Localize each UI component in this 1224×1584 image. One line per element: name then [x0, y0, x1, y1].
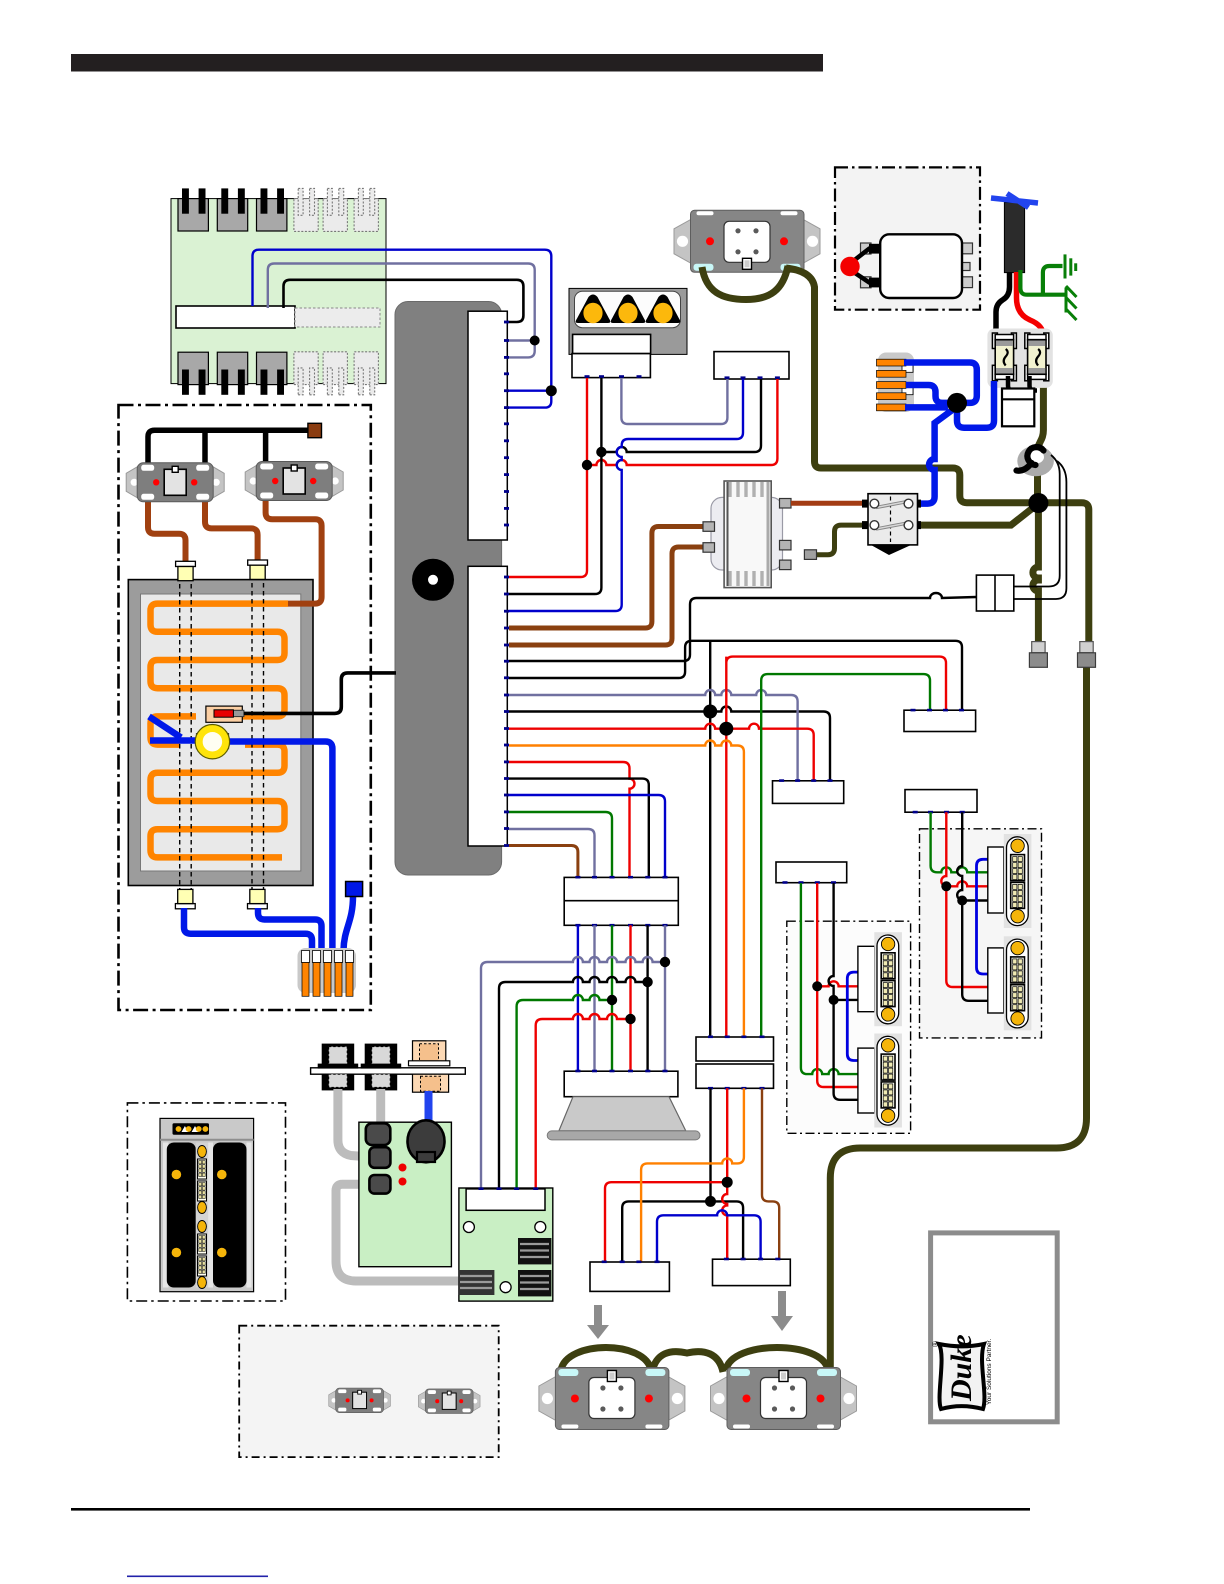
display module A1 [874, 932, 902, 1026]
control panel bezel [160, 1118, 254, 1291]
display dash box A [787, 921, 911, 1133]
rocker switch S1 [862, 494, 921, 555]
thermostat spare dash box [239, 1326, 499, 1457]
junction slate [530, 336, 540, 346]
wire brown below stacked boxes [762, 1088, 779, 1259]
arrow right [771, 1291, 793, 1331]
wire thin black jumper 2 [1014, 461, 1066, 599]
wire blue stack to speaker [577, 925, 579, 1071]
wire green cord to grounds [1020, 270, 1066, 295]
connector 2box [976, 575, 1013, 611]
controller connector CN1 [468, 311, 507, 540]
fuse F2 [1025, 333, 1049, 381]
connector J6 (unused) [354, 188, 378, 231]
power cord [1004, 203, 1024, 273]
wire black vertical feed to stacked boxes [709, 641, 711, 1037]
thermostat TS2 [245, 462, 343, 501]
bottom receptacle right [711, 1368, 857, 1430]
wire orange controller to stacked boxes [509, 741, 744, 1038]
strain relief clamp [1017, 446, 1054, 477]
connector J1 [178, 188, 208, 231]
connector J8 [217, 352, 247, 395]
fuse F1 [992, 333, 1016, 381]
title bar (redacted) [71, 54, 823, 72]
wire blue module B link [977, 859, 988, 974]
module A1 connector [858, 946, 875, 1011]
wire olive bottom receptacle loops [561, 1348, 828, 1373]
connector J5 (unused) [323, 188, 347, 231]
lamp label box [573, 334, 651, 353]
tank body [128, 580, 313, 886]
thermostat bulb [199, 728, 226, 755]
cord break mark blue [991, 194, 1038, 208]
junction blue [546, 385, 557, 396]
junction black [596, 447, 606, 457]
bottom receptacle left [539, 1368, 685, 1430]
PCB2 heatsink right bottom [518, 1270, 551, 1296]
heater terminal T3 [175, 889, 195, 908]
terminal blue square [346, 882, 363, 897]
fuse holder box [1002, 389, 1034, 427]
wire green stack to speaker [611, 925, 613, 1071]
CN1 pin dashes [504, 321, 509, 527]
wire black box3 to modules A [829, 883, 858, 1100]
PCB2 holes [463, 1222, 474, 1233]
wire slate controller to stack pin2 [509, 829, 595, 877]
lamp L3 [646, 295, 681, 324]
PCB label strip 2 (ghost) [295, 308, 380, 327]
Duke logo box [931, 1233, 1058, 1422]
Duke logo [931, 1334, 984, 1409]
wire green box2 to module B1 [931, 812, 988, 872]
wire green box1 to stacked boxes (net G2) [761, 674, 930, 1037]
footer link line [127, 1576, 268, 1578]
wire olive switch to junction diagonal [921, 507, 1034, 525]
stack connector box [564, 877, 678, 925]
connector J12 (unused) [354, 352, 378, 395]
CN2 pin dashes [504, 576, 509, 847]
control panel dash box [127, 1103, 285, 1301]
wire brown tstat1L to terminal T1 [148, 500, 186, 562]
display module A2 [874, 1034, 902, 1128]
junction red [582, 460, 592, 470]
lamp L2 [611, 295, 646, 324]
wire black controller pin to conn4 (net B3) [509, 707, 830, 781]
relay PCB board [171, 199, 386, 384]
controller body [395, 302, 502, 876]
wire red horizontal to right lamp connector [587, 379, 777, 465]
PCB2 heatsink right top [518, 1238, 551, 1264]
wire black horizontal to right lamp connector [601, 379, 761, 452]
wire red box2 to modules B [941, 812, 988, 987]
PCB1 conn1 [366, 1123, 391, 1145]
wire blue bus to switch [921, 408, 955, 504]
lamp L1 [576, 295, 611, 324]
connector box1 [904, 710, 976, 731]
fuse holder peach [409, 1041, 450, 1092]
connector J4 (unused) [294, 188, 318, 231]
wire black lamp pin2 / controller [509, 378, 601, 594]
display module B2 [1004, 936, 1032, 1030]
speaker horn [559, 1097, 686, 1131]
PCB1 red dots [399, 1164, 407, 1172]
bulb blocks [197, 734, 211, 749]
wire blue stub from square [344, 896, 354, 950]
connector left bottom box [590, 1262, 669, 1291]
wire olive junction to cord grip 2 and big loop to right receptacle [830, 503, 1089, 1368]
wire gray conn3 loop to PCB2 [336, 1184, 462, 1281]
wire brown controller to stack pin1 [509, 846, 578, 878]
connector J11 (unused) [323, 352, 347, 395]
wire gray cap1 to conn2 [338, 1089, 372, 1157]
wire black box2 to modules B [957, 812, 988, 1001]
wire red below stacked boxes [605, 1088, 727, 1262]
wire blue capillary left [149, 717, 196, 741]
element dashed legs [180, 567, 264, 903]
wire red controller to box1 and conn pin3 (net RA) [509, 657, 946, 1037]
PCB2 board [459, 1188, 553, 1301]
capacitor C2 [361, 1044, 402, 1091]
wire blue fuse to PCB1 [425, 1091, 433, 1135]
wire orange below stacked boxes [641, 1088, 744, 1262]
wire blue bus B [906, 385, 952, 403]
wire green controller to stack pin3 [509, 812, 612, 877]
wire black controller pin to 2box connector (net B1) [509, 593, 976, 661]
wire gray cap2 to conn1 [376, 1089, 385, 1125]
wire red stack to speaker [629, 925, 631, 1071]
EMI filter device [840, 234, 972, 298]
wire blue left box to right box [657, 1210, 761, 1262]
thermal fuse [206, 706, 244, 722]
PCB label strip [176, 306, 295, 328]
spare thermostat A [329, 1388, 391, 1413]
wire red box3 to modules A [817, 883, 858, 1087]
wire black hi-limit jumper [148, 430, 309, 467]
wire blue module A link [847, 972, 858, 1060]
wire thin black jumper 1 [1014, 455, 1060, 587]
connector conn4 [773, 781, 844, 804]
wire red lamp pin1 / controller (net R-C) [509, 378, 587, 577]
terminal brown square [308, 423, 322, 437]
connector J2 [217, 188, 247, 231]
svg-text:Duke: Duke [945, 1334, 978, 1402]
wire brown controller pin4 to transformer [509, 527, 705, 629]
heating element coil [151, 604, 289, 858]
wire brown tstat2L to element [266, 499, 322, 604]
wire blue controller to stack pin6 [509, 795, 665, 877]
wire slate stack to speaker [593, 925, 595, 1071]
bracket bar [311, 1068, 466, 1074]
module A2 connector [858, 1048, 875, 1113]
wire black controller to stack pin5 [509, 779, 649, 877]
wire brown transformer to switch [791, 501, 866, 506]
fuse block base [987, 329, 1052, 388]
stacked boxes pair [696, 1037, 774, 1061]
controller connector CN2 [468, 566, 507, 846]
junction red A [719, 722, 733, 736]
PCB1 conn2 [369, 1147, 390, 1168]
svg-text:®: ® [931, 1341, 940, 1347]
footer rule [71, 1508, 1030, 1511]
wire blue right lamp pin2 to controller [509, 379, 743, 611]
wire slate PCB to controller pin2/3 [268, 264, 535, 341]
wire blue bus C [905, 404, 948, 411]
wire olive receptacle loop and run to junction [702, 266, 1038, 503]
wire black cord to fuse1 [996, 272, 1010, 334]
wire olive switch stub to pad [816, 525, 866, 555]
transformer T1 [703, 481, 791, 588]
junction olive [1028, 493, 1048, 513]
PCB2 connector strip [466, 1189, 545, 1210]
controller knob [412, 559, 454, 601]
wire black PCB to controller pin1 [284, 280, 524, 322]
wire green feeder from PCB2 [517, 995, 607, 1189]
wire blue capillary right to bottom [228, 742, 332, 950]
wire green box3 to module A2 [801, 883, 858, 1074]
display module B1 [1004, 834, 1032, 928]
connector J10 (unused) [294, 352, 318, 395]
connector J9 [257, 352, 287, 395]
tank assembly dash-dot box [119, 405, 371, 1010]
wire blue PCB to controller pin5/6 [253, 250, 552, 391]
junction blue bus [947, 393, 967, 413]
wire black thermal fuse to controller [244, 673, 396, 714]
junction black B [703, 705, 717, 719]
module B2 connector [988, 948, 1004, 1013]
heater terminal T1 [176, 561, 196, 580]
wire brown tstat1R to terminal T2 [205, 500, 258, 561]
cord grip 2 [1078, 642, 1096, 668]
speaker connector [564, 1071, 678, 1097]
EMI filter dash-dot box [835, 167, 980, 309]
wire black controller pin to box1 (net B2) [509, 641, 962, 711]
capacitor C1 [318, 1044, 359, 1091]
connector J7 [178, 352, 208, 395]
wire olive junction to cord grip 1 [1033, 502, 1039, 642]
wire olive fuse2 down through clamp [1038, 380, 1044, 497]
heater terminal T2 [248, 560, 268, 579]
wire slate lamp jumper [621, 378, 727, 424]
wire brown controller pin5 to transformer [509, 547, 705, 645]
wire black stack to speaker [646, 925, 648, 1071]
wire black below stacked boxes [622, 1088, 743, 1262]
PCB1 board [359, 1122, 452, 1267]
tank wago block [298, 948, 357, 996]
top receptacle outlet [674, 210, 820, 272]
arrow left [587, 1305, 609, 1339]
wire red feeder from PCB2 [536, 1014, 626, 1189]
wire slate stack6 to speaker [664, 925, 666, 1071]
spare thermostat B [418, 1389, 480, 1414]
wire blue terminal T3 [184, 908, 312, 950]
PCB2 heatsink left bottom [458, 1270, 494, 1295]
display dash box B [920, 829, 1042, 1038]
module B1 connector [988, 847, 1004, 913]
indicator lamp panel [569, 288, 687, 354]
speaker base [547, 1131, 700, 1140]
lamp connector left [572, 354, 650, 378]
connector right bottom box [713, 1259, 791, 1285]
connector box3 [776, 862, 847, 883]
terminal pad [804, 550, 816, 560]
fuse holder tails [1008, 376, 1019, 391]
connector J3 [257, 188, 287, 231]
wire blue bus to fuse1 bottom [957, 381, 994, 428]
ground chassis symbol [1066, 286, 1077, 320]
ground earth symbol [1065, 254, 1076, 278]
PCB1 conn3 [369, 1175, 390, 1194]
PCB1 blue connector [408, 1120, 445, 1162]
cord grip 1 [1029, 642, 1047, 668]
svg-text:Your Solutions Partner.: Your Solutions Partner. [986, 1339, 993, 1405]
wire red cord to fuse2 [1017, 272, 1044, 341]
thermostat TS1 [126, 463, 224, 502]
lamp connector right [714, 352, 789, 379]
wire slate controller to conn pin2 [509, 690, 798, 781]
wire black feeder from PCB2 [499, 977, 643, 1189]
wire blue bus A wago to fuse1 [904, 363, 977, 403]
wire red controller to stack pin4 [509, 762, 635, 877]
wire blue terminal T4 [258, 908, 322, 949]
wago block [877, 353, 915, 413]
wire slate feeder from PCB2 [481, 957, 661, 1189]
heater terminal T4 [248, 889, 268, 908]
connector box2 [905, 790, 977, 813]
